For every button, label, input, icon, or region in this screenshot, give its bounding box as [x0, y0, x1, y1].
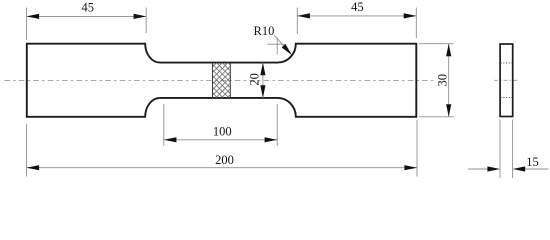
R10 leader line	[274, 35, 289, 51]
dimension 100: arrows	[164, 137, 277, 142]
svg-text:30: 30	[436, 74, 450, 87]
centerline main view	[5, 80, 434, 82]
svg-text:45: 45	[82, 0, 95, 14]
R10 leader: center cross mark	[267, 37, 285, 54]
dimension 45 left: arrows	[27, 14, 147, 19]
dimension 100: dimension line	[164, 139, 277, 141]
hatched cross-section block	[213, 63, 231, 98]
dimension 15: extension lines	[500, 120, 513, 179]
specimen outline	[27, 44, 417, 117]
dimension 15: right dimension line	[525, 168, 549, 170]
side view outline	[500, 44, 513, 117]
svg-text:15: 15	[526, 155, 539, 169]
dimension 200: arrows	[27, 165, 418, 170]
dimension 200: extension lines	[27, 120, 418, 177]
dimension 30: extension lines	[419, 44, 454, 117]
svg-text:20: 20	[248, 73, 262, 86]
dimension 45 right: arrows	[297, 13, 416, 18]
dimension 30: arrows	[446, 44, 451, 117]
dimension 20: dimension line	[262, 63, 264, 98]
dimension 45 right: extension lines	[297, 8, 416, 38]
R10 leader arrow	[282, 44, 294, 57]
svg-text:200: 200	[215, 153, 234, 167]
side view centerline	[494, 79, 518, 81]
dimension 15: left dimension line	[468, 168, 488, 170]
svg-text:100: 100	[213, 124, 232, 138]
side view hidden lines	[501, 63, 513, 97]
dimension 45 left: dimension line	[27, 15, 147, 17]
svg-text:R10: R10	[254, 24, 275, 38]
dimension 30: dimension line	[448, 44, 450, 117]
dimension 20: arrows	[260, 63, 265, 98]
dimension 45 left: extension lines	[27, 8, 147, 40]
dimension 200: dimension line	[27, 167, 418, 169]
dimension 45 right: dimension line	[297, 15, 416, 17]
dimension 100: extension lines	[164, 104, 277, 146]
dimension 15: arrows	[487, 166, 525, 171]
svg-text:45: 45	[351, 0, 364, 14]
